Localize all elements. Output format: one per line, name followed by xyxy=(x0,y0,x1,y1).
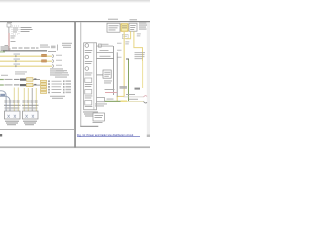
SW2 name text xyxy=(23,121,37,126)
K1 below text xyxy=(104,81,112,84)
U3 text 3 xyxy=(85,72,93,75)
yellow wire YB2 left branch xyxy=(126,31,131,39)
trailer connector box U3 xyxy=(84,43,97,110)
connector bar 2 xyxy=(22,104,39,107)
pin list header text xyxy=(53,70,69,77)
header text hot-at-all-times xyxy=(1,47,11,52)
fuse F1 label text xyxy=(7,21,12,24)
fuse block FB1 yellow box xyxy=(121,24,128,31)
bottom window edge xyxy=(0,146,150,148)
U3 sub box B5 xyxy=(85,90,92,95)
drop wires group2 xyxy=(24,88,37,112)
wire W1 upper gray xyxy=(8,27,11,33)
U3 lamp L1 xyxy=(85,44,89,48)
switch box SW2 xyxy=(23,111,39,119)
labels left of yellow main xyxy=(117,43,122,58)
row A dark tag xyxy=(20,79,26,81)
green wire G1 top tick xyxy=(126,59,129,60)
stacked splice labels xyxy=(41,80,47,93)
wire R1 gray xyxy=(97,57,114,60)
yellow wire Y3 xyxy=(0,66,52,68)
K1 text xyxy=(104,72,110,77)
bus bar label xyxy=(12,48,39,49)
drop wires group1 xyxy=(14,88,19,113)
FB1 text xyxy=(122,25,127,28)
bus V1 xyxy=(112,46,115,95)
wire R0b gray xyxy=(97,51,114,54)
wire R1 label xyxy=(100,55,111,58)
right page frame left border xyxy=(79,22,82,127)
corner wire CW2 xyxy=(0,96,10,112)
U3 lamp L2 xyxy=(85,55,89,59)
row2 thin line xyxy=(127,100,144,103)
center text block xyxy=(50,69,64,76)
U3 inner divider xyxy=(93,43,96,110)
green label xyxy=(120,86,128,89)
Y2 end label xyxy=(56,59,62,62)
SW2 contact X2 xyxy=(32,115,34,118)
note text block xyxy=(62,43,72,48)
junction dot Y2 xyxy=(15,60,16,62)
Y3 end label xyxy=(56,64,62,67)
row A splice label box xyxy=(27,78,34,82)
wire label row3 xyxy=(14,63,21,66)
yellow wire Y2 xyxy=(0,61,52,63)
left page top border xyxy=(0,21,150,22)
U4 text xyxy=(93,115,104,123)
branch labels xyxy=(125,34,141,45)
row1 thin line xyxy=(124,96,144,99)
bus bar xyxy=(3,50,47,51)
SW1 name text xyxy=(5,121,19,126)
wire label row1 xyxy=(14,53,21,56)
SW1 contact X1 xyxy=(8,115,10,118)
bus V2 xyxy=(116,52,119,96)
dashed module box xyxy=(12,26,19,34)
vertical stub x63 xyxy=(56,45,59,51)
side text block xyxy=(135,52,146,59)
wire W1 red feed xyxy=(9,33,10,51)
SW1 contact X2 xyxy=(14,115,16,118)
page number mark xyxy=(0,134,2,137)
wire R0b label xyxy=(100,49,109,52)
under G2 text xyxy=(95,104,107,107)
Y1 end label xyxy=(56,54,62,57)
connector bar 1 xyxy=(4,104,21,107)
junction dot Y3 xyxy=(15,65,16,67)
junction dot Y1 xyxy=(15,55,16,57)
relay box K1 xyxy=(103,70,111,78)
pale yellow wire Y4 right margin xyxy=(142,61,143,88)
green stub left xyxy=(0,51,5,52)
U3 text 4 xyxy=(85,83,93,86)
left page bottom edge xyxy=(0,129,74,130)
pin letters row xyxy=(5,107,38,109)
row1 label xyxy=(126,93,135,96)
fuse F1 box xyxy=(7,24,11,27)
svg-text:Fig. 11: Power and trailer tow: Fig. 11: Power and trailer tow distribut… xyxy=(77,133,134,137)
splice S1 orange box xyxy=(42,54,47,56)
row B: green stub xyxy=(0,84,4,85)
P2 label xyxy=(105,88,115,91)
green wire G2 long horizontal xyxy=(105,101,121,102)
U3 out stub lower xyxy=(97,100,105,103)
row B label xyxy=(5,84,13,85)
header text above border xyxy=(130,19,138,20)
top shadow band xyxy=(0,0,150,3)
U3 text 6 xyxy=(85,105,93,108)
row A connector mark xyxy=(34,78,36,79)
row A wire cont xyxy=(33,78,40,81)
bottom module box U4 xyxy=(93,113,105,121)
row pre-text block xyxy=(1,72,27,76)
top module box U2 xyxy=(107,23,120,32)
wire R0 gray xyxy=(97,45,114,48)
row B text2 xyxy=(14,84,20,85)
wire label row2 xyxy=(14,58,21,61)
module label text xyxy=(21,27,33,32)
Y3 end connector xyxy=(52,65,54,68)
corner wire CW1 xyxy=(0,91,6,112)
page divider xyxy=(74,21,76,148)
yellow wire YB main vertical xyxy=(124,31,125,96)
U3 text 5 xyxy=(85,95,93,98)
stub bracket vertical xyxy=(103,97,106,102)
U3 text 1 xyxy=(85,49,93,52)
wire tags group2 xyxy=(23,100,38,103)
yellow wire Y1 xyxy=(0,56,52,58)
row A: green stub xyxy=(0,79,4,80)
splice S2 orange box xyxy=(42,60,47,62)
header text above U2 xyxy=(108,19,118,20)
text right of FB1 xyxy=(129,25,136,30)
U3 sub box B6 xyxy=(85,101,92,106)
U3 sub box B4 xyxy=(85,78,92,83)
U3 text 2 xyxy=(85,60,93,63)
fuse rating label box xyxy=(122,35,128,39)
green wire G1 vertical xyxy=(128,60,129,102)
Y1 end connector xyxy=(52,55,54,58)
U3 label below xyxy=(83,112,98,117)
bottom center text xyxy=(50,96,65,99)
wire W1 labels xyxy=(5,36,16,46)
row B dark tag xyxy=(20,84,26,86)
row2 dark end hook xyxy=(144,102,148,103)
wire id label blue xyxy=(0,94,5,97)
yellow end segment xyxy=(121,101,128,102)
row1 pink end hook xyxy=(144,96,148,97)
right page frame bottom border xyxy=(80,126,98,127)
row B connector mark xyxy=(34,84,36,85)
Y2 end connector xyxy=(52,60,54,63)
margin text block right xyxy=(139,23,147,30)
switch box SW1 xyxy=(5,111,21,119)
row2 label xyxy=(129,98,138,101)
row A label xyxy=(5,79,13,80)
junction box B3 xyxy=(129,23,137,31)
wire tags group1 xyxy=(5,100,20,103)
U3 lamp L3 xyxy=(85,67,89,71)
row B splice label box xyxy=(27,83,34,87)
yellow jog at bottom xyxy=(117,96,124,101)
scrollbar gutter right edge xyxy=(147,22,150,137)
SW2 contact X1 xyxy=(26,115,28,118)
Y4 bottom mark xyxy=(135,88,141,90)
U2 text xyxy=(109,25,119,30)
wire R0 label xyxy=(100,43,109,46)
wire to K1 xyxy=(97,74,104,77)
row A text2 xyxy=(14,79,20,80)
U3 out stub upper xyxy=(97,96,105,99)
inline connector box on row1 xyxy=(98,44,101,47)
pink wire P2 xyxy=(105,92,117,93)
row B wire cont xyxy=(33,84,40,87)
yellow wire YB3 right branch xyxy=(134,31,143,61)
junction labels right of bus xyxy=(40,45,56,52)
G2 label xyxy=(107,98,114,101)
pin list rows xyxy=(48,80,71,93)
